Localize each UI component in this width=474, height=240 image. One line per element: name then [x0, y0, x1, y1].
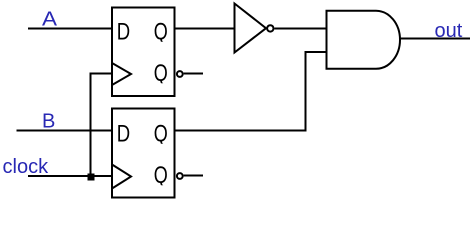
inverter U3 triangle [235, 4, 267, 53]
wire inverter to AND top input [275, 28, 327, 30]
svg-text:D: D [117, 20, 130, 46]
U2 QB bubble [177, 173, 183, 179]
wire U2 Q vertical riser [305, 52, 307, 132]
svg-text:Q: Q [154, 61, 168, 87]
wire clock branch to U1 [90, 73, 113, 75]
svg-text:Q: Q [154, 20, 168, 46]
svg-text:D: D [117, 122, 130, 148]
AND gate U4 [327, 11, 401, 69]
svg-text:Q: Q [154, 122, 168, 148]
svg-text:out: out [435, 20, 463, 42]
wire AND output [400, 38, 470, 40]
wire U2 QB stub [184, 175, 203, 177]
flip-flop U1 body [112, 8, 175, 97]
U2 pin QB label [154, 163, 168, 189]
junction clock branch [88, 174, 95, 181]
wire U2 Q horizontal [175, 130, 306, 132]
wire clock input [28, 175, 112, 177]
wire A input [28, 28, 112, 30]
wire B input [17, 130, 113, 132]
wire U1 QB stub [184, 73, 203, 75]
flip-flop U2 body [112, 109, 175, 198]
U1 QB bubble [177, 71, 183, 77]
wire riser to AND bottom input [305, 51, 327, 53]
U1 pin Q label [154, 20, 168, 46]
inverter U3 bubble [267, 25, 273, 31]
U1 pin QB label [154, 61, 168, 87]
wire clock branch vertical [90, 74, 92, 177]
U2 pin Q label [154, 122, 168, 148]
U1 clock triangle [112, 63, 131, 85]
svg-text:clock: clock [3, 156, 50, 178]
svg-text:B: B [42, 111, 55, 133]
wire U1 Q to inverter [175, 28, 235, 30]
svg-text:Q: Q [154, 163, 168, 189]
U2 clock triangle [112, 165, 131, 189]
svg-text:A: A [42, 9, 58, 31]
